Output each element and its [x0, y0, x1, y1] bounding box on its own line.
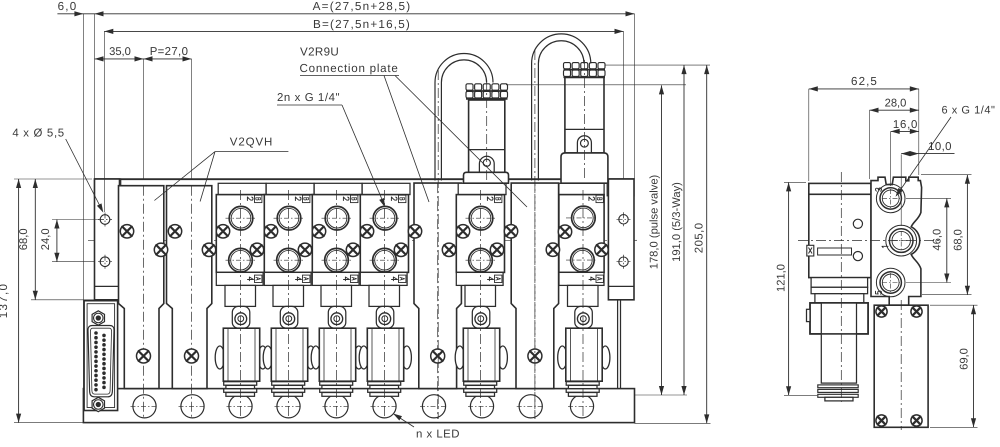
pulse valve tower tab [479, 156, 494, 172]
valve station 6 [359, 346, 368, 369]
svg-text:178,0 (pulse valve): 178,0 (pulse valve) [649, 174, 661, 269]
bent tube from 5/3-way valve to station 9 [532, 34, 591, 181]
dimension A top [57, 13, 634, 15]
svg-text:121,0: 121,0 [776, 264, 788, 292]
svg-text:V2R9U: V2R9U [300, 46, 339, 59]
dimension 137,0 [18, 179, 20, 423]
5/3-way tower tab [577, 136, 591, 153]
dimension 24,0 [56, 220, 58, 262]
5/3-way tower centerline [584, 60, 586, 181]
side view lower block [874, 305, 928, 427]
right end plate [607, 179, 634, 196]
station fixing screws [120, 225, 133, 238]
side view body details [811, 277, 868, 279]
side view horizontal centerline [798, 240, 940, 242]
blanking plate station 2 (V2QVH) [167, 186, 212, 389]
pulse valve tower base [464, 172, 509, 183]
side view top cap [809, 183, 871, 194]
svg-text:A=(27,5n+28,5): A=(27,5n+28,5) [313, 0, 412, 13]
side view port 1 [889, 229, 913, 253]
right end plate hole bottom [619, 257, 628, 266]
side view solenoid coil [821, 303, 856, 383]
svg-text:68,0: 68,0 [953, 229, 965, 251]
svg-text:24,0: 24,0 [40, 228, 52, 250]
blanking plate station 1 (V2QVH) [119, 186, 164, 389]
svg-text:62,5: 62,5 [851, 75, 878, 88]
bent tube from pulse valve to station 7 [435, 54, 493, 181]
side view main body [809, 194, 871, 277]
dimension 28,0 [870, 109, 919, 111]
end plate lower strip [617, 300, 619, 389]
side view port 5 [880, 272, 901, 293]
D-sub pins [95, 332, 98, 335]
dimension 68,0 left [34, 179, 36, 300]
D-sub shell [88, 326, 114, 397]
svg-text:V2QVH: V2QVH [230, 136, 274, 148]
left end plate [95, 179, 121, 196]
dimension 16,0 [891, 130, 919, 132]
pulse valve tower (station 8) body [469, 100, 505, 172]
side view left tab [807, 309, 811, 321]
svg-text:205,0: 205,0 [694, 222, 706, 253]
valve station 5 [311, 346, 320, 369]
dimension B [104, 30, 623, 32]
valve station 8 (pulse valve) [455, 346, 464, 369]
dimension 191,0 5/3-way [606, 64, 711, 66]
manifold rail top edge [95, 178, 635, 180]
extension lines right [635, 394, 688, 396]
valve station 3 [215, 346, 224, 369]
side view centerline [840, 172, 842, 402]
svg-text:B=(27,5n+16,5): B=(27,5n+16,5) [313, 18, 411, 31]
dimension 46,0 [946, 198, 948, 282]
dimension 35,0 [95, 58, 144, 60]
svg-text:6 x G 1/4": 6 x G 1/4" [941, 104, 995, 116]
connection plate station 7 (V2R9U) [414, 183, 461, 389]
dimension 62,5 [809, 88, 919, 90]
pulse valve tower centerline [486, 80, 488, 181]
valve station 10 (5/3-way) [558, 346, 567, 369]
pulse valve tower cable gland [466, 84, 473, 90]
side view port flange outline [871, 177, 922, 305]
dimension 69,0 [973, 305, 975, 427]
side view lower block screws [876, 306, 887, 317]
side view clip and slot [807, 245, 814, 256]
mounting hole bottom [100, 257, 110, 267]
dimension 10,0 [901, 153, 954, 155]
port 5 boss ring [876, 268, 905, 297]
side view screws [853, 219, 862, 228]
svg-text:6,0: 6,0 [58, 0, 78, 13]
port 1 boss ring [886, 225, 917, 256]
svg-text:n x LED: n x LED [416, 428, 460, 440]
side view solenoid upper block [810, 303, 868, 334]
horizontal centerline [88, 239, 637, 241]
svg-text:4 x Ø 5,5: 4 x Ø 5,5 [12, 128, 65, 140]
svg-text:35,0: 35,0 [109, 46, 131, 58]
D-sub hex screw top [92, 311, 104, 325]
svg-text:68,0: 68,0 [18, 228, 30, 250]
svg-text:137,0: 137,0 [0, 283, 10, 319]
dimension 205,0 [706, 65, 708, 423]
manifold base plate (front view) [83, 389, 634, 423]
svg-text:10,0: 10,0 [928, 141, 952, 153]
5/3-way tower base [561, 153, 608, 183]
svg-text:16,0: 16,0 [893, 119, 918, 131]
valve station 4 [263, 346, 272, 369]
D-sub multi-pin connector block [84, 301, 118, 411]
svg-text:46,0: 46,0 [932, 229, 944, 251]
dimension P=27,0 [144, 58, 192, 60]
svg-text:28,0: 28,0 [885, 98, 907, 110]
extension lines top [82, 14, 84, 389]
svg-text:Connection plate: Connection plate [300, 62, 399, 75]
svg-text:191,0 (5/3-Way): 191,0 (5/3-Way) [671, 182, 683, 262]
5/3-way tower (station 10) body [565, 77, 604, 152]
D-sub hex screw bottom [92, 397, 104, 411]
port 3 boss ring [876, 184, 905, 213]
connection plate station 9 (V2R9U) [511, 183, 558, 389]
mounting hole top (4 x 5,5) [100, 215, 110, 225]
dimension 68,0 right [966, 175, 968, 295]
side view port 3 [880, 188, 901, 209]
n x LED indicator circles [133, 395, 156, 418]
right end plate hole top [619, 215, 628, 224]
5/3-way tower cable gland [564, 63, 571, 69]
side view fitting rings [818, 385, 858, 388]
dimension 121,0 [788, 182, 790, 395]
svg-text:2n x G 1/4": 2n x G 1/4" [277, 92, 340, 104]
svg-text:69,0: 69,0 [959, 348, 971, 370]
dimension 178,0 pulse valve [506, 84, 686, 86]
svg-text:P=27,0: P=27,0 [150, 46, 189, 58]
